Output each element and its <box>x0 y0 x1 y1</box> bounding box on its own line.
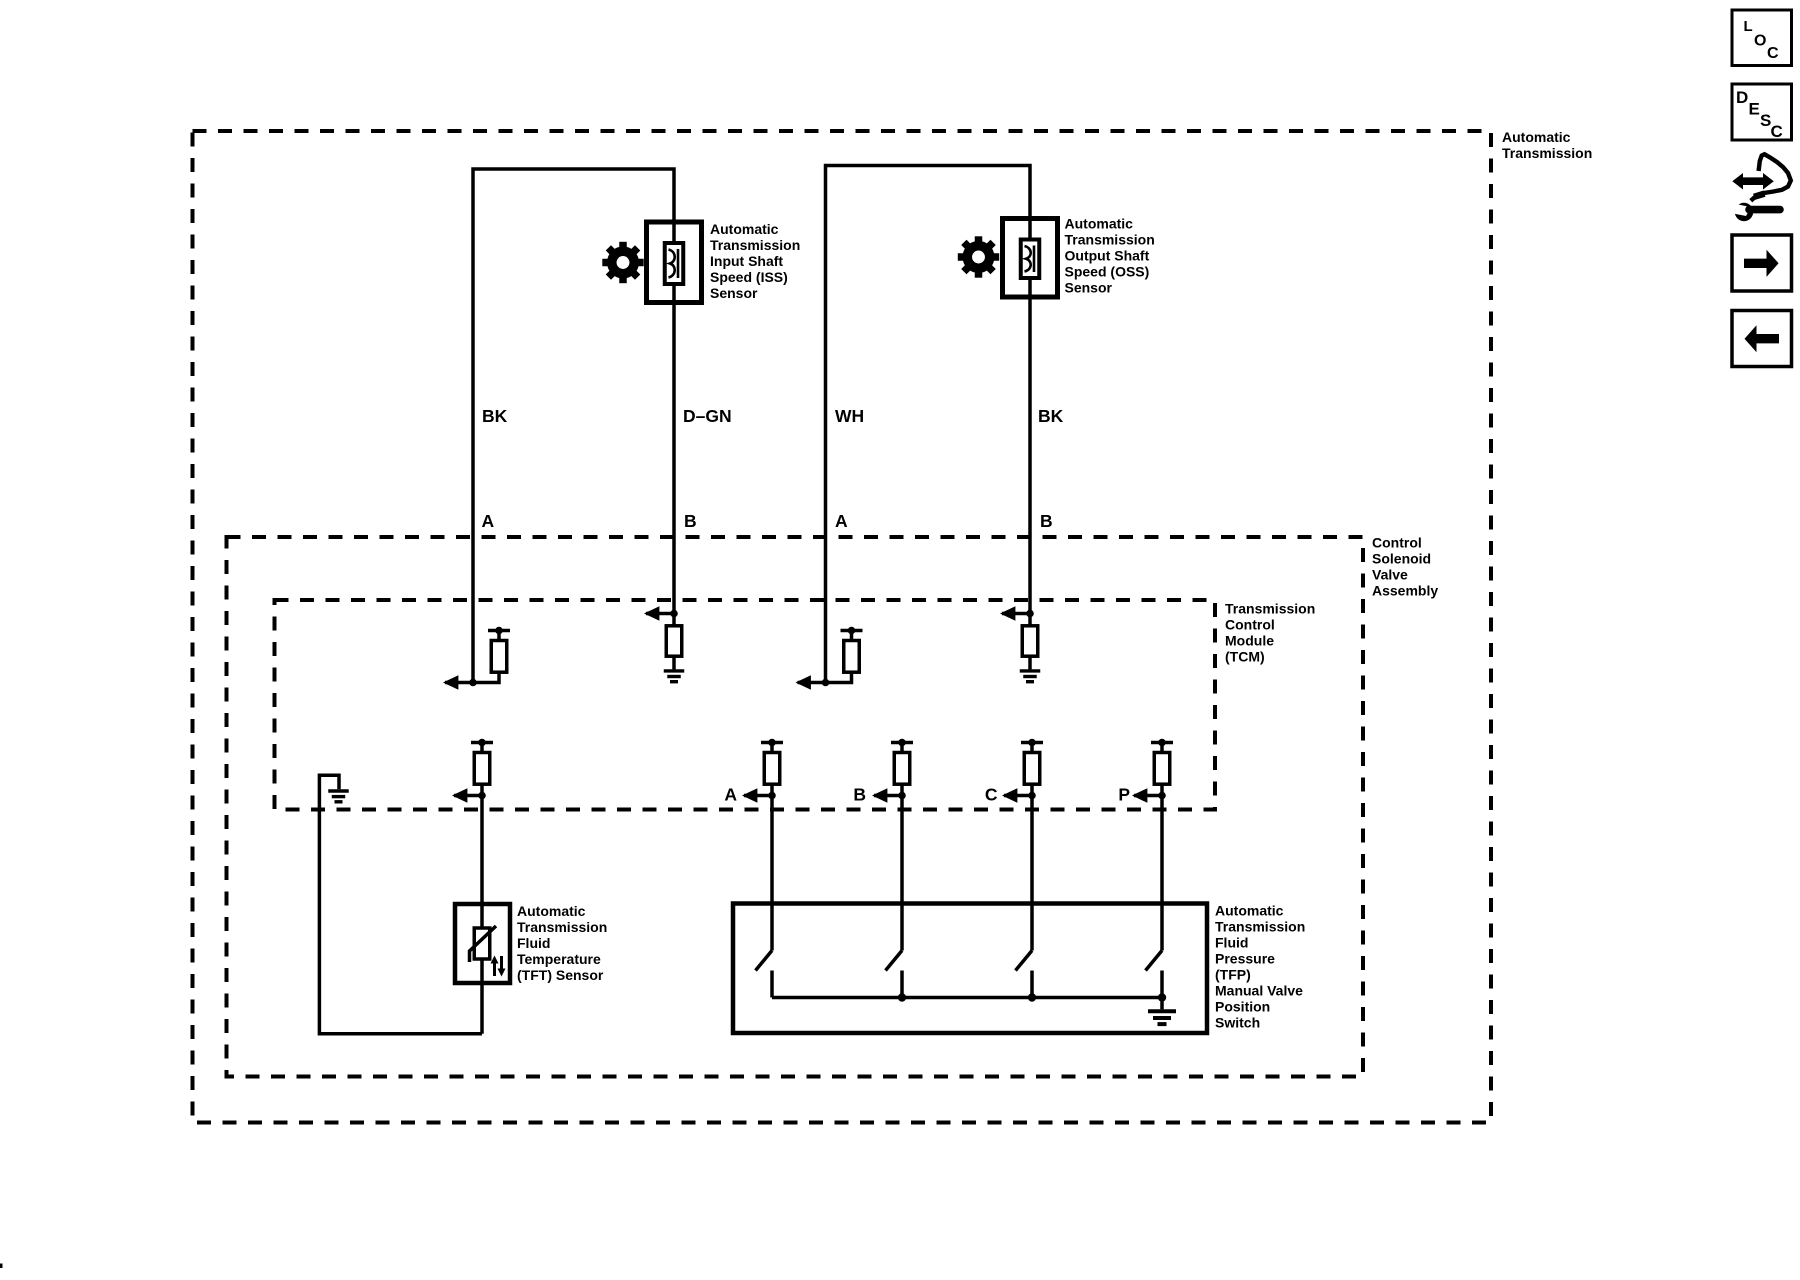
svg-text:C: C <box>985 785 998 805</box>
svg-text:C: C <box>1767 45 1779 62</box>
svg-text:BK: BK <box>482 406 508 426</box>
svg-text:D: D <box>1736 88 1748 107</box>
svg-text:L: L <box>1744 18 1753 35</box>
svg-text:C: C <box>1771 122 1783 141</box>
svg-text:O: O <box>1754 33 1766 50</box>
svg-text:A: A <box>482 511 495 531</box>
svg-text:A: A <box>724 785 737 805</box>
svg-text:B: B <box>1040 511 1053 531</box>
svg-text:A: A <box>835 511 848 531</box>
svg-text:B: B <box>684 511 697 531</box>
svg-text:E: E <box>1749 100 1760 119</box>
svg-text:P: P <box>1118 785 1130 805</box>
svg-text:D–GN: D–GN <box>683 406 732 426</box>
svg-text:WH: WH <box>835 406 864 426</box>
svg-text:BK: BK <box>1038 406 1064 426</box>
svg-text:B: B <box>853 785 866 805</box>
